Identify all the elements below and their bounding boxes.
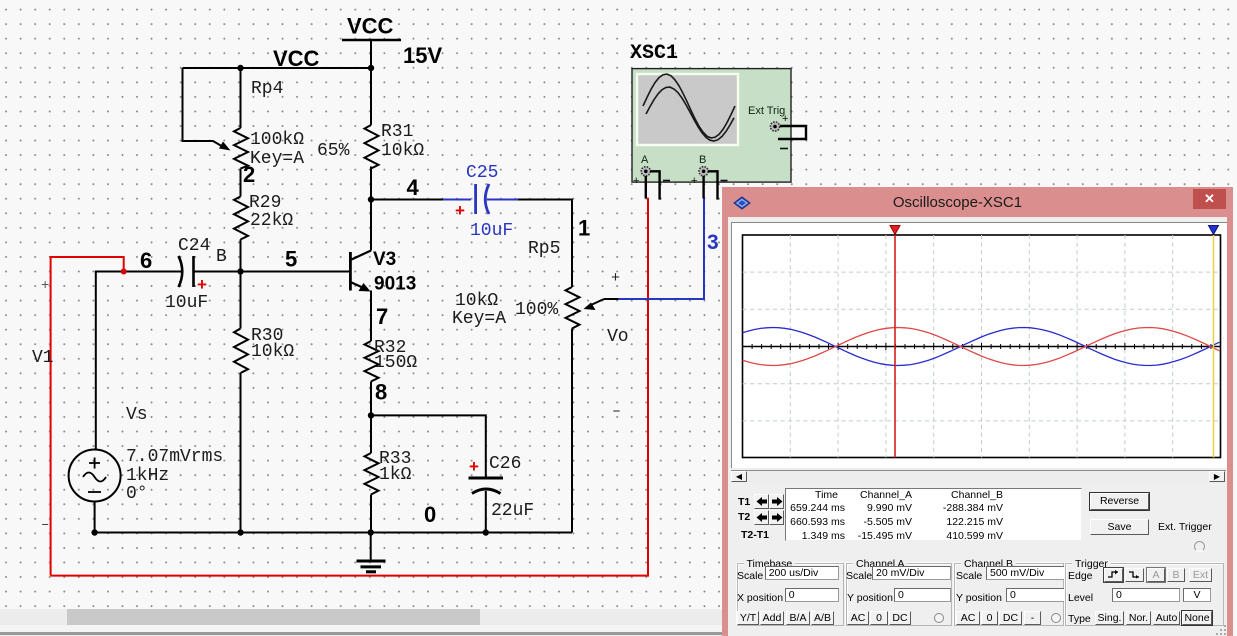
svg-text:V3: V3	[373, 249, 396, 270]
ground	[357, 533, 386, 572]
svg-text:3: 3	[707, 231, 719, 254]
title bar icon	[732, 195, 752, 211]
cursor T1 red line	[894, 235, 896, 458]
svg-text:10uF: 10uF	[165, 293, 208, 313]
plot frame	[742, 235, 1220, 458]
svg-text:C26: C26	[489, 454, 521, 474]
terminal Ext Trig	[770, 113, 788, 149]
svg-text:100%: 100%	[515, 300, 558, 320]
svg-text:7: 7	[376, 304, 388, 329]
svg-text:+: +	[197, 275, 207, 294]
capacitor C25	[443, 184, 518, 214]
wire terminal B plus stub	[702, 176, 704, 199]
resistor R33	[365, 453, 379, 495]
schematic horizontal scrollbar	[0, 609, 722, 625]
Channel B group	[954, 563, 1064, 626]
svg-text:4: 4	[407, 175, 420, 200]
junction R30 bottom	[237, 529, 243, 535]
svg-text:+: +	[611, 270, 620, 287]
junction VCC node	[368, 65, 374, 71]
svg-text:–: –	[41, 517, 49, 533]
Reverse button	[1090, 493, 1149, 510]
svg-text:1kHz: 1kHz	[126, 466, 169, 486]
resistor R30	[234, 329, 248, 374]
wire R32 to node 8	[370, 382, 372, 416]
wire Rp5 wiper stub	[604, 298, 619, 300]
terminal A	[633, 154, 670, 187]
waveform channel A red	[742, 328, 1219, 366]
svg-text:+: +	[633, 175, 639, 187]
wire terminal A plus stub	[645, 176, 647, 199]
potentiometer Rp5 wiper arrow	[592, 299, 604, 305]
scope scrollbar	[731, 470, 1227, 484]
svg-text:C24: C24	[178, 236, 210, 256]
svg-text:Rp5: Rp5	[528, 239, 560, 259]
wire probe red bottom	[51, 198, 648, 576]
svg-text:XSC1: XSC1	[630, 42, 678, 65]
wire Rp4 to R29	[240, 169, 242, 197]
close button	[1193, 189, 1226, 209]
resistor R32	[365, 341, 379, 382]
display panel	[731, 222, 1228, 468]
wire Rp5 bottom	[571, 329, 573, 533]
instrument XSC1 oscilloscope icon	[632, 69, 791, 183]
svg-text:+: +	[469, 457, 479, 476]
junction Rp4 top	[237, 65, 243, 71]
svg-text:+: +	[455, 201, 465, 220]
wire probe red top	[51, 257, 124, 576]
svg-text:7.07mVrms: 7.07mVrms	[126, 447, 223, 467]
svg-text:15V: 15V	[403, 43, 442, 68]
svg-text:150Ω: 150Ω	[374, 353, 417, 373]
svg-text:0: 0	[424, 502, 436, 527]
capacitor C26	[469, 478, 504, 533]
svg-text:V1: V1	[32, 348, 54, 368]
junction node 8	[368, 412, 374, 418]
svg-text:–: –	[612, 403, 621, 420]
oscilloscope window	[722, 187, 1233, 636]
svg-text:Rp4: Rp4	[251, 79, 283, 99]
wire ground bus bottom	[95, 532, 572, 534]
Save button	[1090, 519, 1149, 535]
svg-text:1: 1	[578, 216, 590, 241]
svg-text:22uF: 22uF	[491, 501, 534, 521]
svg-text:Key=A: Key=A	[452, 309, 506, 329]
svg-text:+: +	[691, 175, 697, 187]
wire R29 to base node	[240, 240, 242, 272]
title text	[722, 194, 1193, 211]
svg-text:10kΩ: 10kΩ	[381, 141, 424, 161]
wire C24 left to V1	[96, 272, 171, 451]
svg-text:9013: 9013	[374, 274, 416, 295]
svg-text:10kΩ: 10kΩ	[455, 291, 498, 311]
svg-text:Key=A: Key=A	[250, 149, 304, 169]
wire R31 to node 4	[370, 167, 372, 251]
svg-text:+: +	[782, 113, 788, 125]
svg-text:VCC: VCC	[273, 46, 320, 71]
svg-text:+: +	[41, 278, 49, 294]
wire node 8 to C26	[371, 415, 486, 478]
svg-text:8: 8	[375, 380, 387, 405]
svg-text:22kΩ: 22kΩ	[250, 211, 293, 231]
Trigger group	[1065, 563, 1224, 626]
svg-text:1kΩ: 1kΩ	[379, 465, 412, 485]
junction V1 bottom	[91, 529, 97, 535]
wire base node to transistor	[193, 271, 351, 273]
svg-text:R31: R31	[381, 122, 413, 142]
readout box	[785, 488, 1082, 541]
Timebase group	[737, 563, 844, 626]
resize grip	[1216, 625, 1228, 636]
svg-text:65%: 65%	[317, 141, 350, 161]
wire V1 to ground bus	[94, 502, 96, 533]
wire node 4 to C25	[371, 199, 443, 201]
wire Ext Trig stub	[778, 126, 806, 139]
Channel A group	[846, 563, 952, 626]
wire Rp4 top segment	[240, 68, 242, 128]
waveform channel B blue	[742, 328, 1219, 366]
svg-text:100kΩ: 100kΩ	[250, 130, 304, 150]
junction C26 bottom	[483, 529, 489, 535]
svg-text:R29: R29	[249, 193, 281, 213]
svg-text:10kΩ: 10kΩ	[251, 342, 294, 362]
svg-text:Vo: Vo	[607, 327, 629, 347]
resistor R31	[365, 125, 379, 169]
svg-text:10uF: 10uF	[470, 221, 513, 241]
svg-text:B: B	[216, 247, 227, 267]
svg-text:C25: C25	[466, 163, 498, 183]
svg-text:VCC: VCC	[347, 14, 394, 39]
junction node 4	[368, 196, 374, 202]
terminal B	[691, 154, 728, 187]
potentiometer Rp4 wiper arrow	[219, 142, 231, 151]
svg-text:A: A	[641, 154, 649, 166]
wire R33 to ground bus	[370, 495, 372, 533]
wire emitter to R32	[370, 291, 372, 342]
junction probe red	[121, 269, 127, 275]
svg-text:0°: 0°	[126, 484, 148, 504]
svg-text:6: 6	[140, 248, 152, 273]
potentiometer Rp4	[234, 128, 248, 169]
wire R30 branch	[240, 272, 242, 329]
wire C25 to node 1	[518, 200, 572, 288]
wire node 8 to R33	[370, 415, 372, 453]
wire R30 to ground bus	[240, 373, 242, 533]
time axis	[742, 346, 1220, 348]
resistor R29	[234, 197, 248, 240]
cursor T2 yellow line	[1212, 235, 1214, 458]
source V1	[69, 450, 121, 502]
wire VCC horizontal to Rp4	[183, 67, 372, 69]
wire terminal A minus stub	[650, 171, 660, 199]
wire terminal B minus stub	[708, 171, 718, 199]
svg-text:Ext Trig: Ext Trig	[748, 105, 785, 117]
power symbol VCC (top)	[342, 14, 401, 41]
svg-text:5: 5	[285, 247, 297, 272]
capacitor C24	[171, 256, 194, 287]
svg-text:2: 2	[243, 162, 255, 187]
wire Rp4 wiper loop	[183, 68, 226, 148]
wire probe blue Vo	[619, 198, 704, 299]
potentiometer Rp5	[566, 287, 580, 329]
svg-text:Vs: Vs	[126, 405, 148, 425]
wire VCC vertical to R31	[370, 40, 372, 125]
junction base node	[237, 268, 243, 274]
cursor handle T1	[890, 226, 900, 235]
svg-text:B: B	[699, 154, 706, 166]
junction ground stem	[368, 529, 374, 535]
transistor V3	[350, 251, 371, 292]
cursor handle T2	[1208, 226, 1218, 235]
